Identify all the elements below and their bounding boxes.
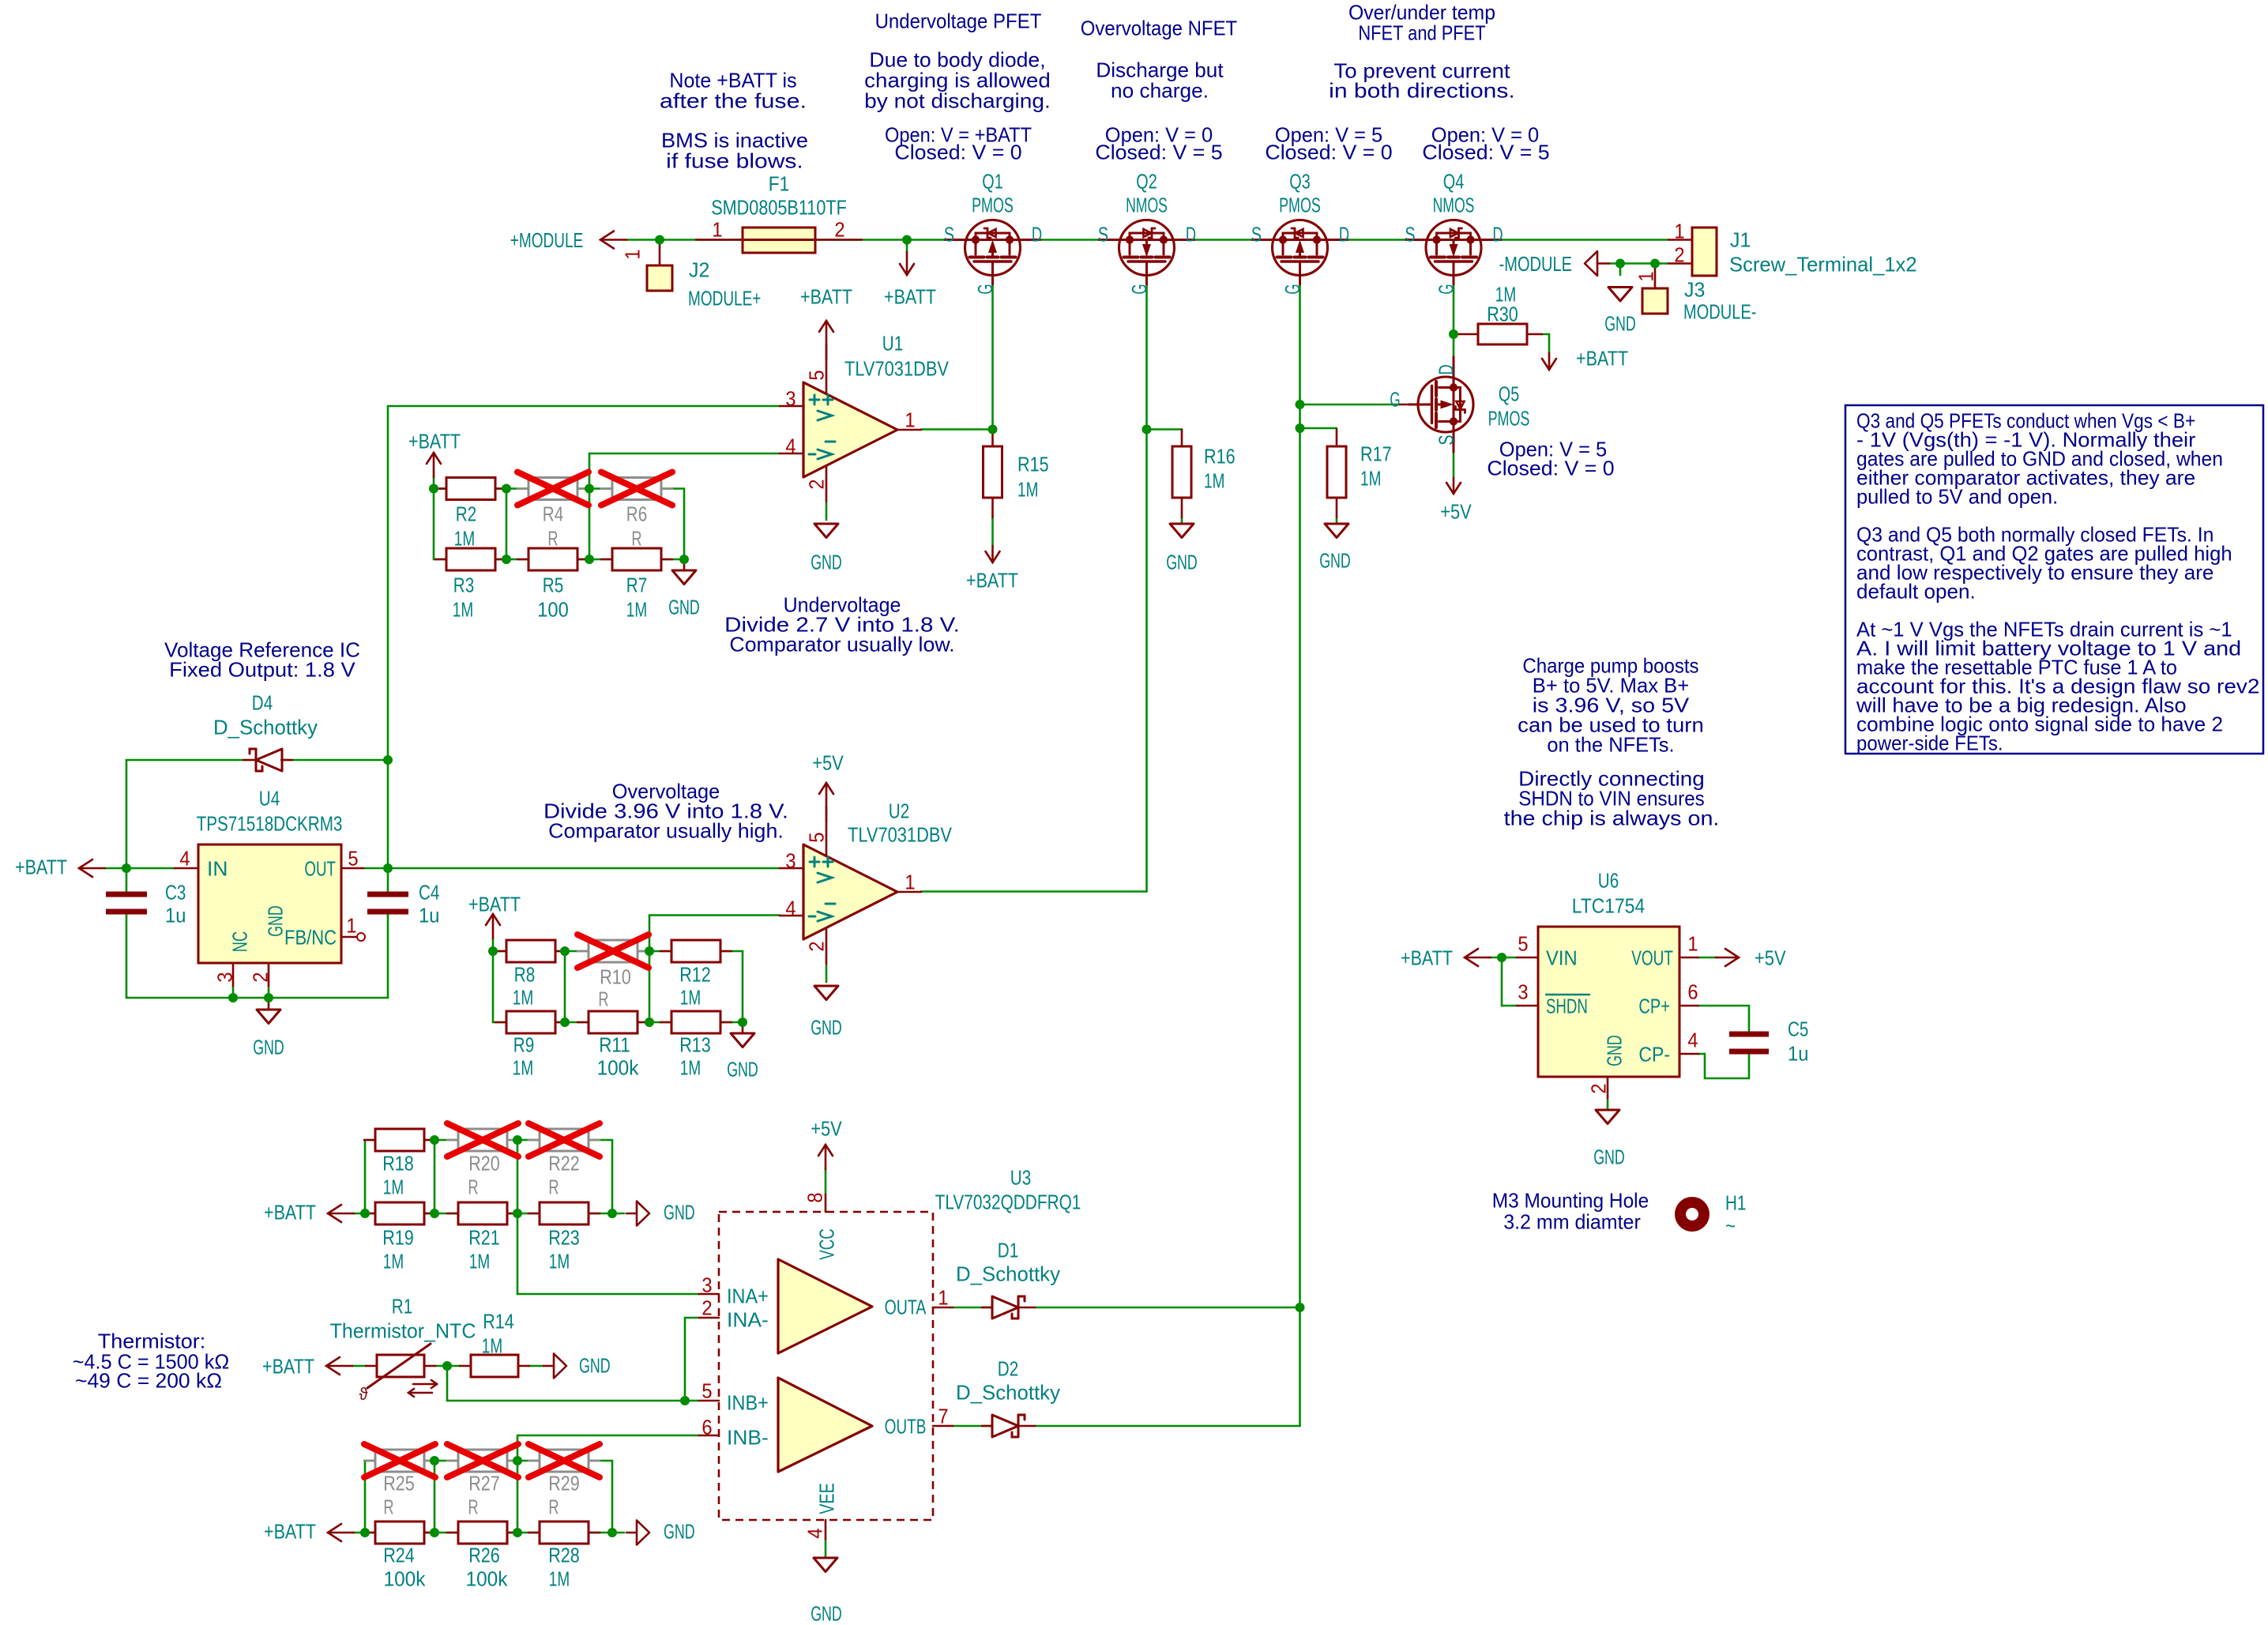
svg-text:default open.: default open. bbox=[1856, 579, 1976, 603]
svg-text:6: 6 bbox=[1687, 980, 1698, 1003]
svg-text:1M: 1M bbox=[383, 1175, 404, 1198]
svg-text:D: D bbox=[1434, 364, 1457, 374]
svg-text:R20: R20 bbox=[468, 1151, 500, 1175]
svg-text:CP+: CP+ bbox=[1638, 994, 1670, 1018]
svg-text:1: 1 bbox=[712, 217, 722, 241]
svg-text:1M: 1M bbox=[1204, 468, 1224, 492]
svg-text:2: 2 bbox=[1586, 1083, 1610, 1093]
svg-text:3: 3 bbox=[785, 386, 795, 410]
svg-text:D2: D2 bbox=[998, 1356, 1018, 1380]
svg-text:C3: C3 bbox=[165, 880, 186, 904]
svg-text:~: ~ bbox=[1725, 1213, 1736, 1237]
svg-text:G: G bbox=[1127, 284, 1151, 294]
svg-text:D: D bbox=[1492, 222, 1503, 246]
svg-text:Comparator usually low.: Comparator usually low. bbox=[729, 632, 954, 656]
svg-text:PMOS: PMOS bbox=[1488, 406, 1530, 430]
svg-text:D_Schottky: D_Schottky bbox=[956, 1380, 1060, 1404]
svg-text:+BATT: +BATT bbox=[262, 1354, 314, 1378]
svg-text:U1: U1 bbox=[882, 331, 903, 355]
svg-text:+BATT: +BATT bbox=[15, 855, 67, 878]
svg-text:+BATT: +BATT bbox=[884, 284, 936, 308]
svg-text:NC: NC bbox=[228, 931, 251, 952]
svg-text:R26: R26 bbox=[468, 1543, 500, 1567]
svg-text:1: 1 bbox=[1634, 271, 1657, 281]
svg-text:R: R bbox=[598, 987, 608, 1010]
svg-text:Undervoltage PFET: Undervoltage PFET bbox=[875, 9, 1042, 32]
svg-text:100k: 100k bbox=[466, 1567, 509, 1590]
svg-text:1u: 1u bbox=[419, 903, 439, 927]
svg-text:VIN: VIN bbox=[1546, 946, 1578, 969]
svg-text:100k: 100k bbox=[597, 1055, 640, 1079]
svg-text:NFET and PFET: NFET and PFET bbox=[1358, 21, 1485, 44]
svg-text:LTC1754: LTC1754 bbox=[1572, 893, 1645, 917]
svg-text:2: 2 bbox=[804, 479, 828, 489]
svg-text:R2: R2 bbox=[456, 502, 476, 525]
svg-text:1M: 1M bbox=[513, 1055, 533, 1079]
svg-text:5: 5 bbox=[701, 1379, 712, 1402]
svg-text:~49 C = 200 kΩ: ~49 C = 200 kΩ bbox=[75, 1368, 222, 1392]
svg-text:R18: R18 bbox=[382, 1151, 414, 1175]
svg-text:1M: 1M bbox=[680, 985, 701, 1009]
svg-text:power-side FETs.: power-side FETs. bbox=[1856, 731, 2003, 754]
svg-text:+BATT: +BATT bbox=[468, 892, 521, 916]
svg-text:if fuse blows.: if fuse blows. bbox=[666, 149, 803, 172]
svg-text:1: 1 bbox=[938, 1285, 948, 1309]
svg-text:INA-: INA- bbox=[727, 1307, 769, 1331]
svg-text:GND: GND bbox=[579, 1353, 611, 1377]
svg-text:D_Schottky: D_Schottky bbox=[213, 715, 318, 739]
svg-text:OUT: OUT bbox=[304, 856, 336, 880]
svg-text:2: 2 bbox=[1674, 243, 1684, 266]
svg-text:GND: GND bbox=[1166, 550, 1198, 574]
svg-text:8: 8 bbox=[803, 1192, 826, 1202]
svg-text:4: 4 bbox=[785, 896, 795, 920]
svg-text:the chip is always on.: the chip is always on. bbox=[1504, 806, 1720, 829]
svg-text:1u: 1u bbox=[165, 903, 186, 927]
svg-text:R22: R22 bbox=[548, 1151, 580, 1175]
svg-text:S: S bbox=[1405, 222, 1415, 246]
svg-text:Closed: V = 5: Closed: V = 5 bbox=[1422, 140, 1549, 164]
svg-text:GND: GND bbox=[263, 905, 287, 937]
svg-text:Thermistor_NTC: Thermistor_NTC bbox=[330, 1318, 476, 1342]
svg-text:NMOS: NMOS bbox=[1433, 193, 1475, 216]
svg-text:CP-: CP- bbox=[1638, 1042, 1670, 1066]
svg-text:PMOS: PMOS bbox=[972, 193, 1014, 216]
svg-text:1M: 1M bbox=[453, 597, 473, 621]
svg-text:1M: 1M bbox=[680, 1055, 701, 1079]
svg-text:MODULE-: MODULE- bbox=[1683, 299, 1756, 323]
svg-text:NMOS: NMOS bbox=[1126, 193, 1168, 216]
svg-text:1: 1 bbox=[905, 870, 915, 893]
svg-text:GND: GND bbox=[253, 1035, 284, 1059]
svg-text:Closed: V = 0: Closed: V = 0 bbox=[894, 140, 1021, 164]
svg-text:2: 2 bbox=[248, 972, 272, 982]
svg-text:by not discharging.: by not discharging. bbox=[864, 88, 1051, 112]
svg-text:R17: R17 bbox=[1360, 442, 1392, 465]
svg-text:+5V: +5V bbox=[811, 1116, 842, 1140]
svg-text:G: G bbox=[1390, 387, 1400, 411]
svg-text:+BATT: +BATT bbox=[966, 568, 1018, 592]
svg-text:+BATT: +BATT bbox=[1401, 946, 1453, 969]
svg-text:1: 1 bbox=[1674, 219, 1684, 243]
svg-text:2: 2 bbox=[701, 1296, 712, 1319]
svg-text:+BATT: +BATT bbox=[264, 1519, 316, 1543]
svg-text:R24: R24 bbox=[383, 1543, 415, 1567]
svg-text:J2: J2 bbox=[689, 258, 709, 281]
svg-text:+MODULE: +MODULE bbox=[510, 228, 583, 252]
svg-text:U3: U3 bbox=[1010, 1165, 1031, 1189]
svg-text:on the NFETs.: on the NFETs. bbox=[1547, 732, 1674, 756]
svg-text:R21: R21 bbox=[468, 1225, 500, 1249]
svg-text:Closed: V = 5: Closed: V = 5 bbox=[1095, 140, 1222, 164]
svg-text:S: S bbox=[1434, 434, 1457, 445]
svg-text:TLV7031DBV: TLV7031DBV bbox=[848, 822, 953, 846]
svg-text:6: 6 bbox=[701, 1415, 712, 1439]
svg-text:R1: R1 bbox=[392, 1294, 412, 1318]
svg-text:R: R bbox=[631, 526, 641, 550]
svg-text:TPS71518DCKRM3: TPS71518DCKRM3 bbox=[197, 811, 343, 835]
svg-text:1M: 1M bbox=[383, 1249, 404, 1273]
svg-text:R3: R3 bbox=[453, 573, 474, 596]
svg-text:R10: R10 bbox=[600, 965, 631, 988]
svg-text:OUTB: OUTB bbox=[885, 1414, 927, 1438]
svg-text:3.2 mm diamter: 3.2 mm diamter bbox=[1503, 1209, 1641, 1233]
svg-text:GND: GND bbox=[664, 1519, 695, 1543]
svg-text:1M: 1M bbox=[1017, 477, 1038, 501]
svg-text:1M: 1M bbox=[549, 1567, 570, 1590]
svg-text:1: 1 bbox=[905, 408, 915, 431]
svg-text:2: 2 bbox=[834, 217, 844, 241]
svg-text:GND: GND bbox=[1604, 311, 1636, 335]
svg-text:3: 3 bbox=[1518, 980, 1528, 1003]
svg-text:+BATT: +BATT bbox=[1576, 346, 1628, 370]
svg-text:GND: GND bbox=[1602, 1035, 1626, 1066]
svg-text:U6: U6 bbox=[1598, 868, 1619, 892]
svg-text:R: R bbox=[468, 1495, 478, 1518]
svg-text:R: R bbox=[548, 1495, 559, 1518]
svg-text:R25: R25 bbox=[383, 1471, 415, 1495]
svg-text:1: 1 bbox=[1687, 931, 1698, 955]
svg-text:4: 4 bbox=[803, 1528, 826, 1538]
svg-text:Q5: Q5 bbox=[1499, 382, 1519, 405]
svg-text:R: R bbox=[548, 1175, 559, 1198]
svg-text:Overvoltage NFET: Overvoltage NFET bbox=[1081, 16, 1237, 39]
svg-text:H1: H1 bbox=[1725, 1191, 1746, 1214]
svg-text:GND: GND bbox=[668, 595, 700, 619]
svg-text:INB-: INB- bbox=[727, 1425, 769, 1449]
svg-text:R9: R9 bbox=[513, 1033, 534, 1056]
svg-text:VOUT: VOUT bbox=[1631, 946, 1673, 969]
svg-text:+BATT: +BATT bbox=[800, 284, 852, 308]
svg-text:R15: R15 bbox=[1017, 452, 1049, 476]
svg-text:OUTA: OUTA bbox=[885, 1295, 927, 1318]
svg-text:+BATT: +BATT bbox=[264, 1200, 316, 1224]
svg-text:+5V: +5V bbox=[1755, 946, 1786, 969]
svg-text:SMD0805B110TF: SMD0805B110TF bbox=[711, 195, 847, 219]
svg-text:MODULE+: MODULE+ bbox=[688, 286, 761, 310]
svg-text:5: 5 bbox=[348, 846, 358, 870]
svg-text:Screw_Terminal_1x2: Screw_Terminal_1x2 bbox=[1729, 252, 1917, 276]
svg-text:1M: 1M bbox=[469, 1249, 490, 1273]
svg-text:R: R bbox=[547, 526, 558, 550]
svg-text:VEE: VEE bbox=[814, 1483, 838, 1514]
svg-text:GND: GND bbox=[1319, 548, 1351, 572]
svg-text:1M: 1M bbox=[454, 526, 475, 550]
svg-text:D1: D1 bbox=[998, 1238, 1018, 1262]
svg-text:+5V: +5V bbox=[812, 750, 844, 774]
svg-text:D: D bbox=[1032, 222, 1042, 246]
svg-text:R19: R19 bbox=[382, 1225, 414, 1249]
svg-text:TLV7032QDDFRQ1: TLV7032QDDFRQ1 bbox=[935, 1190, 1081, 1213]
svg-text:R12: R12 bbox=[679, 962, 711, 986]
svg-text:100: 100 bbox=[537, 597, 569, 621]
svg-text:G: G bbox=[1281, 284, 1304, 294]
svg-text:1M: 1M bbox=[549, 1249, 570, 1273]
svg-text:INB+: INB+ bbox=[727, 1390, 769, 1414]
svg-text:R16: R16 bbox=[1204, 444, 1236, 468]
svg-text:C5: C5 bbox=[1788, 1017, 1808, 1040]
svg-text:3: 3 bbox=[213, 972, 236, 982]
svg-text:4: 4 bbox=[179, 846, 190, 870]
svg-text:Closed: V = 0: Closed: V = 0 bbox=[1265, 140, 1392, 164]
svg-text:-MODULE: -MODULE bbox=[1499, 252, 1572, 276]
svg-text:5: 5 bbox=[1518, 931, 1528, 955]
svg-text:R4: R4 bbox=[543, 502, 563, 525]
svg-text:R13: R13 bbox=[679, 1033, 711, 1056]
svg-text:R29: R29 bbox=[548, 1471, 580, 1495]
svg-text:pulled to 5V and open.: pulled to 5V and open. bbox=[1856, 484, 2058, 508]
svg-text:PMOS: PMOS bbox=[1279, 193, 1321, 216]
svg-text:1M: 1M bbox=[513, 985, 533, 1009]
svg-text:Closed: V = 0: Closed: V = 0 bbox=[1487, 456, 1614, 480]
svg-text:no charge.: no charge. bbox=[1111, 78, 1209, 102]
svg-text:IN: IN bbox=[207, 856, 228, 880]
svg-text:1: 1 bbox=[620, 249, 644, 259]
svg-text:S: S bbox=[1098, 222, 1108, 246]
svg-text:100k: 100k bbox=[384, 1567, 427, 1590]
svg-text:3: 3 bbox=[785, 848, 795, 872]
svg-text:F1: F1 bbox=[769, 171, 789, 195]
svg-text:Fixed Output: 1.8 V: Fixed Output: 1.8 V bbox=[169, 657, 355, 681]
svg-text:D4: D4 bbox=[252, 690, 273, 714]
svg-text:3: 3 bbox=[701, 1273, 712, 1296]
svg-text:R27: R27 bbox=[468, 1471, 500, 1495]
svg-text:Q3: Q3 bbox=[1289, 169, 1310, 193]
svg-text:R6: R6 bbox=[626, 502, 647, 525]
svg-text:Q1: Q1 bbox=[982, 169, 1002, 193]
svg-text:G: G bbox=[973, 284, 997, 294]
svg-text:after the fuse.: after the fuse. bbox=[660, 88, 807, 112]
svg-text:VCC: VCC bbox=[814, 1228, 838, 1260]
svg-text:S: S bbox=[1251, 222, 1262, 246]
svg-text:GND: GND bbox=[811, 1601, 842, 1625]
svg-text:R30: R30 bbox=[1487, 302, 1518, 325]
svg-text:1: 1 bbox=[346, 913, 356, 937]
svg-text:+5V: +5V bbox=[1440, 499, 1472, 523]
svg-text:GND: GND bbox=[1593, 1145, 1625, 1168]
svg-text:R11: R11 bbox=[599, 1033, 630, 1056]
svg-text:R5: R5 bbox=[543, 573, 563, 596]
svg-text:J1: J1 bbox=[1730, 228, 1751, 251]
svg-text:Q4: Q4 bbox=[1443, 169, 1464, 193]
svg-text:R: R bbox=[468, 1175, 478, 1198]
svg-text:D_Schottky: D_Schottky bbox=[956, 1262, 1060, 1285]
svg-text:1u: 1u bbox=[1788, 1041, 1808, 1065]
svg-text:R8: R8 bbox=[514, 962, 535, 986]
svg-text:J3: J3 bbox=[1684, 277, 1705, 301]
svg-text:in both directions.: in both directions. bbox=[1329, 78, 1515, 102]
svg-text:FB/NC: FB/NC bbox=[284, 925, 337, 949]
svg-text:R14: R14 bbox=[483, 1309, 514, 1333]
svg-text:R7: R7 bbox=[626, 573, 647, 596]
svg-text:Comparator usually high.: Comparator usually high. bbox=[548, 818, 784, 842]
svg-text:R23: R23 bbox=[548, 1225, 580, 1249]
svg-text:5: 5 bbox=[804, 370, 828, 380]
svg-text:2: 2 bbox=[804, 941, 828, 951]
svg-text:G: G bbox=[1434, 284, 1457, 294]
svg-text:5: 5 bbox=[804, 832, 828, 842]
svg-text:1M: 1M bbox=[1360, 466, 1381, 490]
svg-text:R: R bbox=[383, 1495, 393, 1518]
svg-text:INA+: INA+ bbox=[727, 1284, 769, 1307]
svg-text:7: 7 bbox=[938, 1404, 948, 1428]
svg-text:SHDN: SHDN bbox=[1546, 994, 1588, 1018]
svg-text:D: D bbox=[1339, 222, 1349, 246]
svg-text:GND: GND bbox=[811, 550, 842, 574]
svg-text:C4: C4 bbox=[419, 880, 439, 904]
svg-text:D: D bbox=[1186, 222, 1196, 246]
svg-text:+BATT: +BATT bbox=[408, 429, 461, 453]
svg-text:M3 Mounting Hole: M3 Mounting Hole bbox=[1492, 1188, 1649, 1212]
svg-text:TLV7031DBV: TLV7031DBV bbox=[844, 356, 950, 380]
svg-text:ϑ: ϑ bbox=[359, 1384, 368, 1404]
svg-text:4: 4 bbox=[1687, 1028, 1698, 1051]
svg-text:Q2: Q2 bbox=[1136, 169, 1157, 193]
svg-text:1M: 1M bbox=[482, 1333, 502, 1357]
svg-text:U2: U2 bbox=[889, 799, 909, 822]
svg-text:GND: GND bbox=[664, 1200, 695, 1224]
svg-text:1M: 1M bbox=[626, 597, 647, 621]
svg-text:S: S bbox=[944, 222, 954, 246]
svg-text:U4: U4 bbox=[259, 786, 280, 810]
svg-text:R28: R28 bbox=[548, 1543, 580, 1567]
svg-text:GND: GND bbox=[727, 1057, 758, 1081]
svg-text:4: 4 bbox=[785, 434, 795, 457]
svg-text:GND: GND bbox=[811, 1015, 842, 1039]
